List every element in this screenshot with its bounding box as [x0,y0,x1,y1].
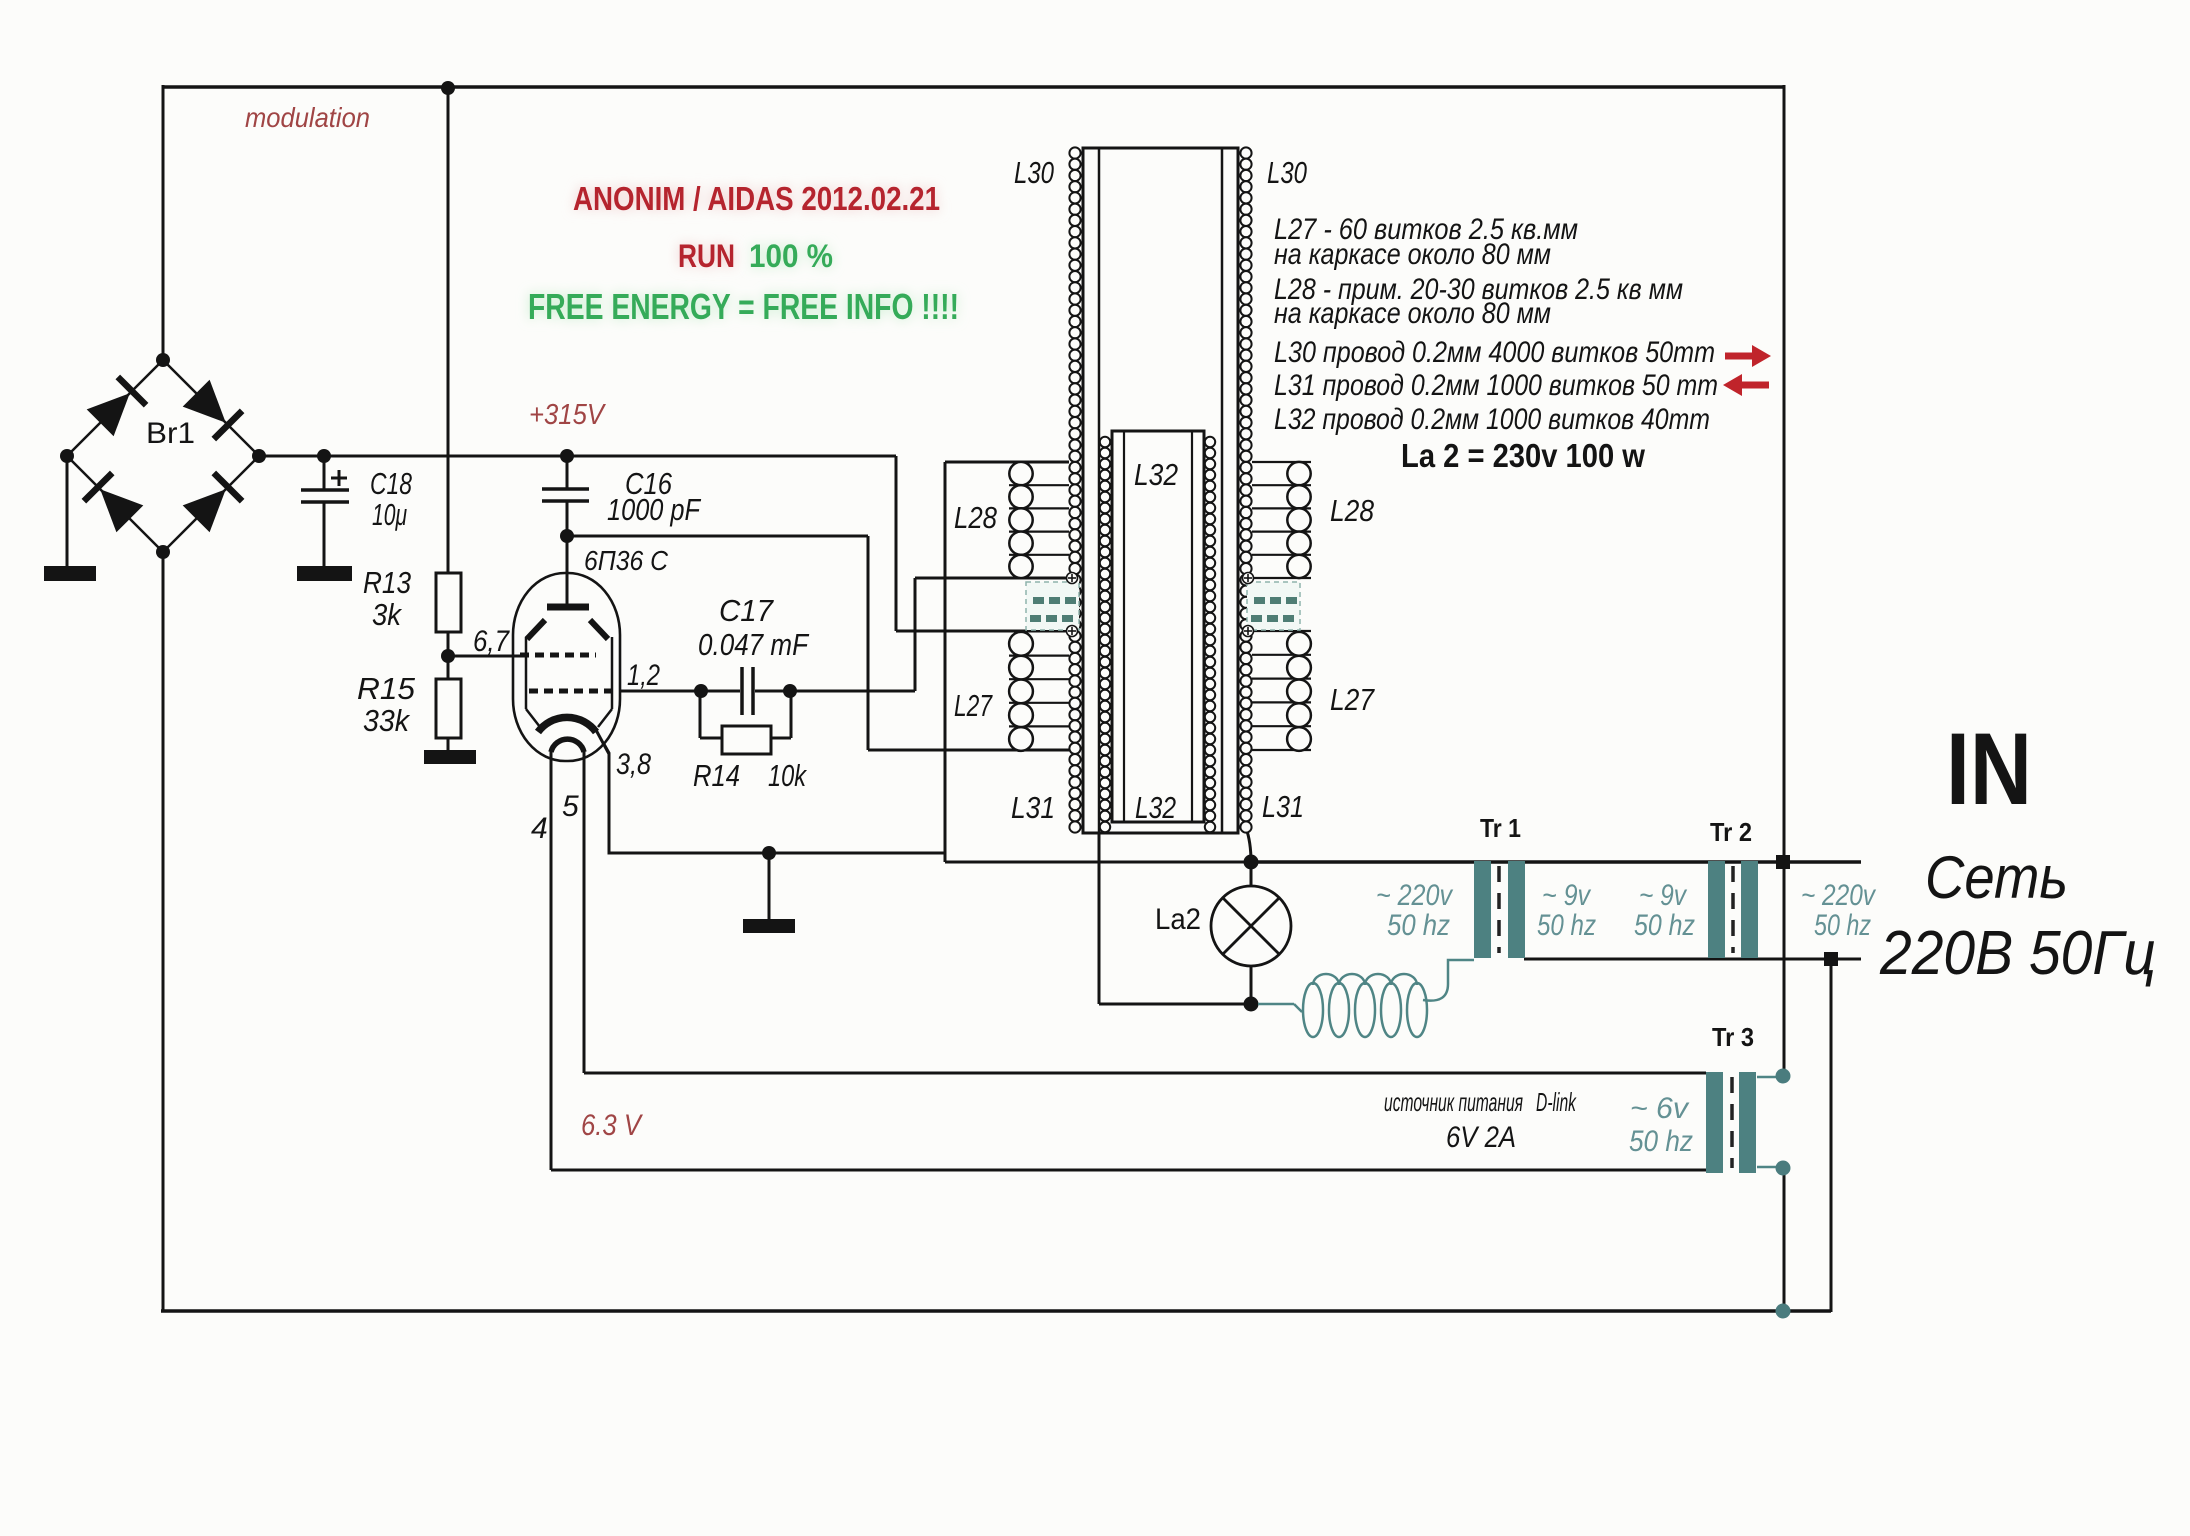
svg-text:R15: R15 [357,671,416,706]
svg-text:L31: L31 [1262,789,1304,824]
svg-text:ANONIM / AIDAS 2012.02.21: ANONIM / AIDAS 2012.02.21 [573,180,940,217]
svg-text:33k: 33k [363,703,410,738]
svg-text:0.047 mF: 0.047 mF [698,627,810,662]
svg-text:Tr 2: Tr 2 [1710,817,1752,847]
svg-text:La 2 = 230v 100 w: La 2 = 230v 100 w [1401,437,1645,474]
svg-text:50 hz: 50 hz [1814,909,1871,942]
svg-text:4: 4 [531,812,548,845]
svg-text:100 %: 100 % [749,238,833,274]
svg-text:50 hz: 50 hz [1634,909,1695,942]
svg-text:220В 50Гц: 220В 50Гц [1879,919,2156,988]
svg-text:6,7: 6,7 [473,625,510,658]
svg-text:3k: 3k [372,597,402,632]
svg-text:L28: L28 [1330,493,1375,528]
svg-text:L30 провод 0.2мм 4000 витков 5: L30 провод 0.2мм 4000 витков 50mm [1274,336,1715,369]
svg-text:L27: L27 [954,688,993,723]
svg-text:L32 провод 0.2мм 1000 витков 4: L32 провод 0.2мм 1000 витков 40mm [1274,403,1710,436]
svg-text:L30: L30 [1267,155,1307,190]
svg-text:5: 5 [562,790,579,823]
svg-text:C17: C17 [719,593,775,628]
svg-text:на каркасе около 80 мм: на каркасе около 80 мм [1274,297,1551,330]
svg-text:1,2: 1,2 [627,659,660,692]
svg-text:C18: C18 [370,466,413,501]
svg-text:~ 9v: ~ 9v [1639,879,1688,912]
svg-text:FREE ENERGY = FREE INFO !!!!: FREE ENERGY = FREE INFO !!!! [528,286,959,327]
svg-text:L32: L32 [1135,790,1176,825]
svg-text:50 hz: 50 hz [1629,1125,1693,1158]
svg-text:6.3 V: 6.3 V [581,1109,644,1142]
svg-text:Br1: Br1 [146,417,195,450]
svg-text:~ 9v: ~ 9v [1542,879,1592,912]
svg-text:L32: L32 [1134,457,1178,492]
svg-text:10μ: 10μ [372,497,407,532]
svg-text:IN: IN [1946,712,2032,826]
svg-text:на каркасе около 80 мм: на каркасе около 80 мм [1274,238,1551,271]
svg-text:~ 220v: ~ 220v [1376,879,1454,912]
svg-text:6П36 С: 6П36 С [584,545,669,576]
svg-text:1000 pF: 1000 pF [607,492,702,527]
svg-text:R14: R14 [693,758,740,793]
svg-text:RUN: RUN [678,238,735,274]
svg-text:L27: L27 [1330,682,1375,717]
svg-text:~ 220v: ~ 220v [1801,879,1877,912]
svg-text:La2: La2 [1155,903,1201,936]
svg-text:Tr 3: Tr 3 [1712,1022,1754,1052]
svg-text:источник питания D-link: источник питания D-link [1384,1087,1577,1117]
svg-text:Сеть: Сеть [1925,844,2068,911]
svg-text:50 hz: 50 hz [1387,909,1450,942]
svg-text:L31 провод 0.2мм 1000 витков 5: L31 провод 0.2мм 1000 витков 50 mm [1274,369,1718,402]
svg-text:3,8: 3,8 [616,748,651,781]
svg-text:+315V: +315V [529,399,606,431]
svg-text:~ 6v: ~ 6v [1630,1092,1690,1125]
svg-text:R13: R13 [363,565,411,600]
svg-text:50 hz: 50 hz [1537,909,1596,942]
svg-text:L28: L28 [954,500,998,535]
svg-text:L31: L31 [1011,790,1055,825]
svg-text:6V 2A: 6V 2A [1446,1121,1516,1154]
svg-text:Tr 1: Tr 1 [1480,813,1521,843]
svg-text:modulation: modulation [245,102,370,133]
svg-text:L30: L30 [1014,155,1054,190]
svg-text:10k: 10k [768,758,807,793]
